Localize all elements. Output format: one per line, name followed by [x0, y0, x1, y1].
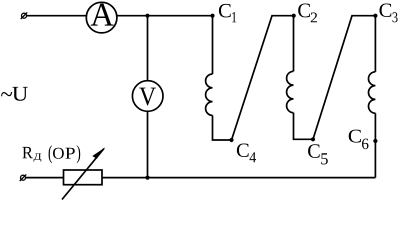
label Rd subscript D: [34, 153, 42, 161]
label Rd letter R: [22, 147, 33, 158]
label C4 letter C: [237, 144, 249, 158]
label A (ammeter letter): [91, 4, 114, 26]
terminal T1 top-left: [21, 12, 28, 19]
terminal T2 bottom-left: [20, 174, 27, 181]
voltmeter V: [132, 81, 163, 112]
node C2 dot: [292, 14, 296, 18]
rheostat arrow: [62, 147, 105, 199]
wire voltmeter to bottom: [147, 110, 149, 178]
junction dot voltmeter/bottom wire: [145, 176, 149, 180]
label C6 subscript 6: [362, 139, 369, 150]
label C3 subscript 3: [393, 12, 398, 22]
label V (voltmeter letter): [139, 88, 156, 106]
junction dot at ammeter/voltmeter branch: [145, 14, 149, 18]
ammeter A: [86, 2, 117, 33]
label C3 letter C: [380, 4, 392, 18]
label C5 letter C: [308, 144, 320, 158]
label C4 subscript 4: [250, 152, 257, 162]
label (OP) close paren: [77, 145, 80, 163]
bottom wire: [102, 177, 375, 179]
label (OP) letter O: [53, 148, 64, 159]
wire ammeter to node C1: [116, 15, 213, 17]
label C5 subscript 5: [321, 153, 328, 164]
node C3 dot: [373, 14, 377, 18]
node C1 dot: [210, 14, 214, 18]
label ~ of ~U: [1, 92, 12, 96]
jumper C5 to C3: [313, 16, 375, 140]
wire junction to voltmeter: [147, 16, 149, 82]
label (OP) open paren: [49, 145, 52, 163]
node C5 dot: [311, 137, 315, 141]
label (OP) letter P: [65, 148, 74, 159]
node C6 dot: [373, 139, 377, 143]
rheostat Rd body: [64, 170, 103, 185]
wire terminal T1 to ammeter: [27, 15, 88, 17]
winding 3 (C3-C6): [374, 16, 376, 72]
label C1 letter C: [219, 4, 231, 18]
wire terminal T2 to rheostat: [26, 177, 64, 179]
label C2 subscript 2: [311, 13, 317, 23]
jumper C4 to C2: [232, 16, 295, 140]
label U of ~U: [12, 87, 27, 101]
label C2 letter C: [298, 4, 310, 18]
node C4 dot: [229, 138, 233, 142]
winding 2 (C2-C5): [293, 16, 295, 72]
label C1 subscript 1: [232, 12, 236, 22]
label C6 letter C: [349, 130, 361, 143]
winding 1 (C1-C4): [212, 16, 214, 74]
